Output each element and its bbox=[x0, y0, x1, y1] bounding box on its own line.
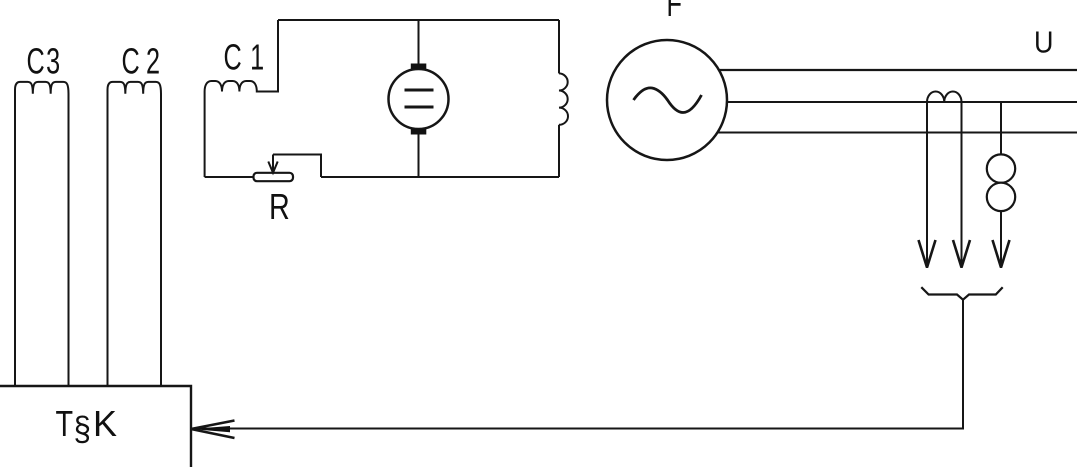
svg-text:R: R bbox=[269, 186, 290, 227]
CT left lead bbox=[926, 102, 928, 268]
wire bottom rail right segment bbox=[321, 176, 559, 178]
wire bottom rail left segment bbox=[205, 176, 254, 178]
meter DC bars bbox=[405, 90, 434, 107]
winding C3 bbox=[15, 82, 69, 387]
rheostat wiper wire bbox=[273, 155, 321, 178]
svg-text:U: U bbox=[1034, 26, 1053, 60]
VT arrowhead bbox=[993, 240, 1010, 268]
feedback arrowhead tip bbox=[191, 426, 231, 432]
inductor right branch lower wire bbox=[558, 125, 560, 177]
VT lower circle bbox=[987, 183, 1015, 211]
svg-text:§: § bbox=[74, 409, 91, 448]
phase line B bbox=[667, 101, 1077, 103]
svg-text:C1: C1 bbox=[224, 37, 273, 78]
wire through meter bbox=[418, 20, 420, 177]
rheostat R body bbox=[254, 173, 294, 181]
winding C2 bbox=[108, 82, 162, 387]
block T§K box bbox=[0, 386, 191, 467]
meter P circle bbox=[389, 69, 449, 129]
feedback wire bbox=[194, 300, 963, 429]
VT upper circle bbox=[987, 154, 1015, 182]
generator sine wave bbox=[634, 88, 702, 113]
CT right lead bbox=[961, 102, 963, 268]
VT lead bbox=[1000, 102, 1002, 268]
wire C1 left leg down to bottom rail bbox=[204, 92, 206, 178]
rheostat wiper arrow bbox=[272, 155, 274, 173]
svg-text:C3: C3 bbox=[27, 41, 62, 82]
inductor right branch winding bbox=[559, 73, 568, 124]
svg-text:C2: C2 bbox=[122, 41, 167, 82]
feedback arrowhead barbs bbox=[191, 421, 235, 439]
winding C1 bbox=[205, 20, 278, 92]
CT right arrowhead bbox=[953, 240, 970, 268]
generator F circle bbox=[607, 40, 727, 160]
CT left arrowhead bbox=[919, 240, 936, 268]
meter bottom brush bbox=[411, 129, 427, 135]
phase line A bbox=[667, 69, 1077, 71]
svg-text:T: T bbox=[56, 403, 74, 444]
svg-text:F: F bbox=[667, 0, 682, 24]
wire top rail bbox=[278, 19, 559, 21]
svg-text:K: K bbox=[93, 403, 117, 444]
phase line C bbox=[667, 132, 1077, 134]
current transformer winding bbox=[927, 91, 962, 102]
brace bbox=[921, 287, 1002, 300]
meter top brush bbox=[411, 64, 427, 70]
inductor right branch upper wire bbox=[558, 20, 560, 73]
